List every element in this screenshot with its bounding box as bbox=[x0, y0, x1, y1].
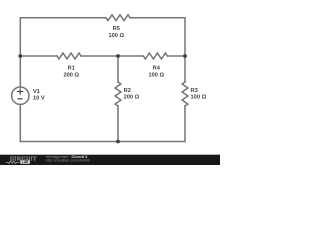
resistor R3 bbox=[182, 82, 188, 106]
wire V1 top lead bbox=[19, 56, 21, 87]
wire middle left bbox=[20, 55, 57, 57]
V1 minus symbol bbox=[17, 98, 22, 100]
wire middle center bbox=[81, 55, 143, 57]
wire bottom bbox=[20, 106, 185, 142]
svg-text:200 Ω: 200 Ω bbox=[124, 95, 140, 101]
node junction right top bbox=[183, 54, 187, 58]
wire top right segment bbox=[130, 18, 185, 56]
svg-text:R1: R1 bbox=[68, 66, 75, 72]
wire R2 bottom lead bbox=[117, 106, 119, 142]
svg-text:http://circuitlab.com/c6448b: http://circuitlab.com/c6448b bbox=[46, 158, 90, 162]
wire middle right bbox=[167, 55, 185, 57]
svg-text:R3: R3 bbox=[191, 88, 198, 94]
node junction left bbox=[18, 54, 22, 58]
V1 plus symbol bbox=[17, 88, 23, 99]
svg-text:R4: R4 bbox=[153, 66, 161, 72]
svg-text:LAB: LAB bbox=[22, 160, 29, 164]
svg-text:R5: R5 bbox=[113, 26, 120, 32]
resistor R5 bbox=[106, 15, 130, 21]
watermark logo LAB box bbox=[20, 160, 30, 163]
resistor R2 bbox=[115, 82, 121, 106]
watermark logo resistor zigzag bbox=[6, 161, 19, 164]
wire R3 top lead bbox=[184, 56, 186, 82]
wire R2 top lead bbox=[117, 56, 119, 82]
wire top left segment bbox=[20, 18, 106, 56]
svg-text:R2: R2 bbox=[124, 88, 131, 94]
voltage source V1 bbox=[12, 87, 29, 104]
svg-text:100 Ω: 100 Ω bbox=[108, 33, 124, 39]
svg-text:V1: V1 bbox=[33, 89, 40, 95]
svg-text:100 Ω: 100 Ω bbox=[191, 95, 207, 101]
resistor R4 bbox=[143, 53, 167, 59]
node junction middle top bbox=[116, 54, 120, 58]
watermark band bbox=[0, 155, 220, 165]
svg-text:200 Ω: 200 Ω bbox=[63, 72, 79, 78]
svg-text:100 Ω: 100 Ω bbox=[148, 72, 164, 78]
resistor R1 bbox=[57, 53, 81, 59]
svg-text:10 V: 10 V bbox=[33, 96, 45, 102]
wire V1 bottom lead bbox=[19, 105, 21, 142]
node junction middle bottom bbox=[116, 140, 120, 144]
